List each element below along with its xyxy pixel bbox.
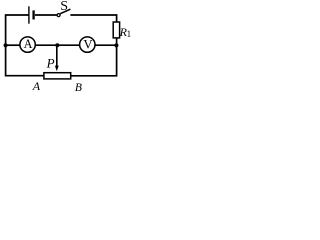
wire switch to top-right corner down to R1	[70, 15, 116, 22]
svg-text:P: P	[46, 55, 55, 70]
wire voltmeter to right node	[95, 44, 116, 46]
rheostat slider arrow P	[46, 55, 59, 71]
wire top-left + left side + bottom-left	[6, 15, 44, 76]
switch S	[57, 0, 70, 17]
svg-text:A: A	[32, 79, 41, 93]
svg-text:A: A	[24, 37, 33, 51]
node left junction	[4, 43, 8, 47]
wire left node to ammeter	[6, 44, 20, 46]
resistor R1	[113, 22, 131, 39]
wire ammeter to voltmeter	[36, 44, 80, 46]
ammeter A	[20, 37, 35, 52]
rheostat body	[44, 73, 71, 79]
wire battery to switch	[35, 14, 57, 16]
svg-text:1: 1	[127, 29, 131, 39]
battery	[29, 6, 34, 23]
wire middle node down to rheostat slider	[56, 45, 58, 66]
node right junction	[114, 43, 118, 47]
svg-text:B: B	[75, 82, 82, 94]
voltmeter V	[80, 37, 95, 52]
node middle junction	[55, 43, 59, 47]
wire R1 down right side + bottom-right	[71, 38, 117, 76]
svg-text:S: S	[60, 0, 68, 14]
svg-text:V: V	[83, 37, 93, 51]
